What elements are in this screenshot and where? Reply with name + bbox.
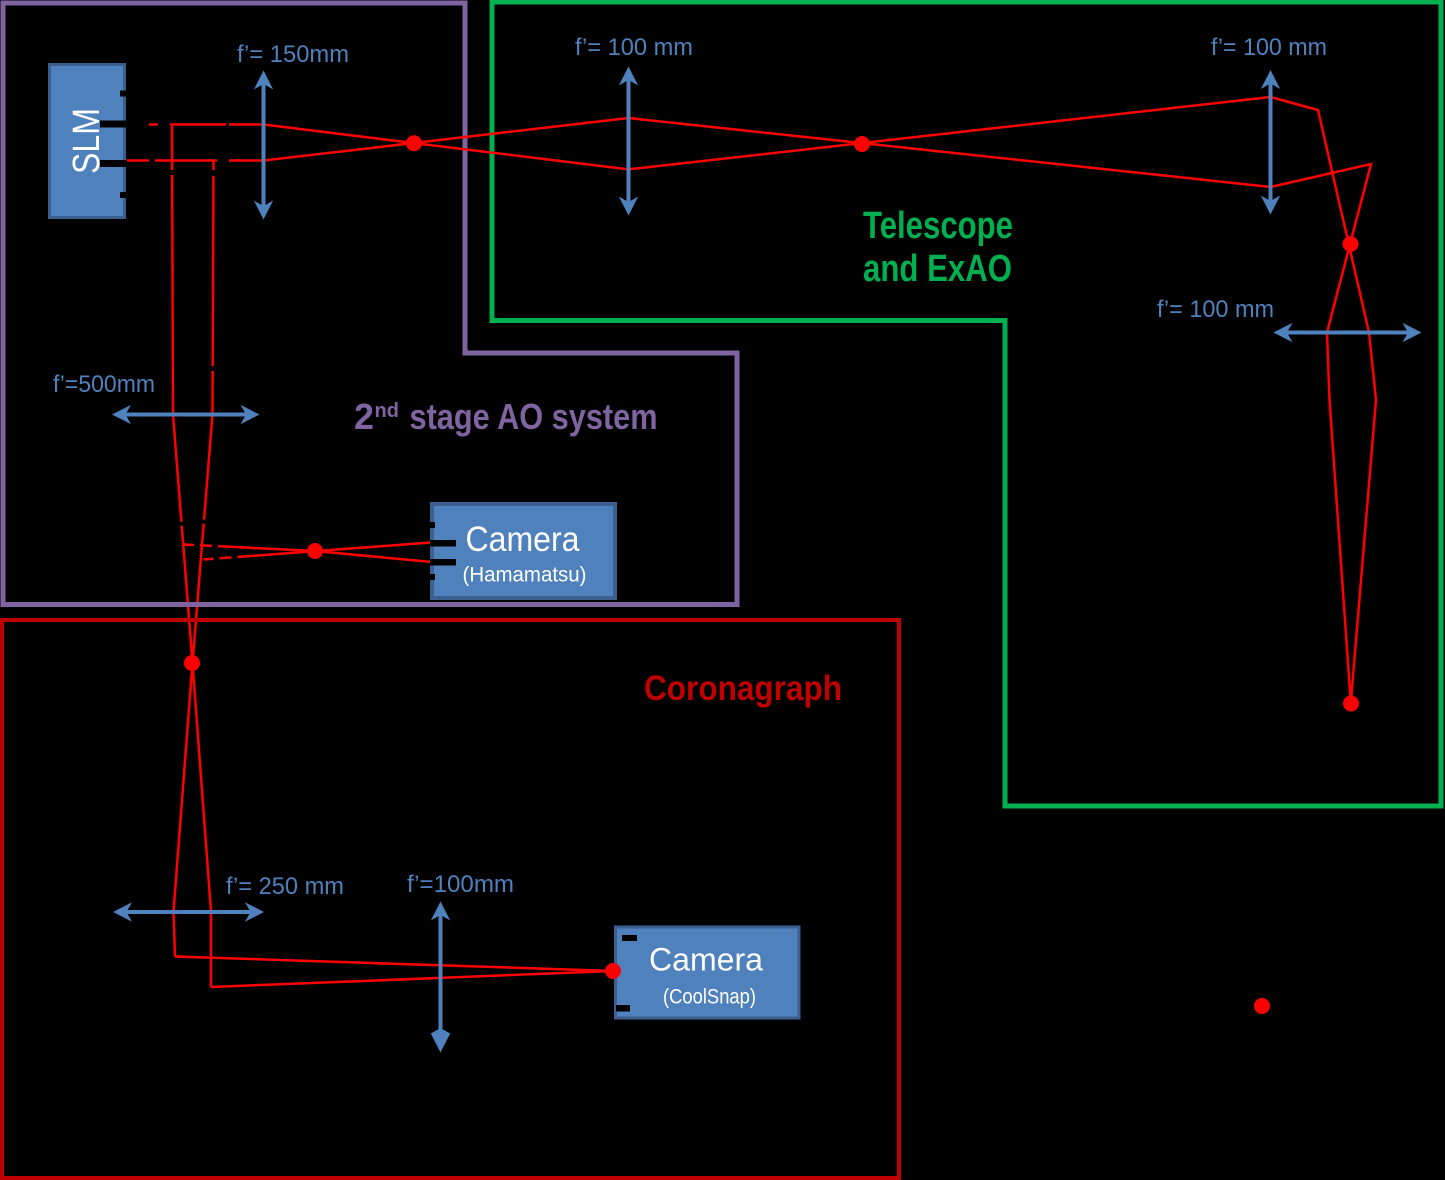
svg-text:Telescope: Telescope [863,205,1013,247]
svg-text:stage AO system: stage AO system [410,396,658,437]
lens L2 f'=100mm vertical double arrow [619,67,638,216]
wire: ray L3 top folded down through focus F3 to lens L4 [1271,97,1370,333]
wire: ray L2 bottom through focus F2 to lens L3 top [629,97,1271,169]
svg-text:f’=500mm: f’=500mm [53,371,155,398]
node: green box Telescope and ExAO [492,2,1441,806]
svg-text:2: 2 [354,396,374,437]
node: SLM box [50,65,128,218]
node: lone focus dot bottom right [1254,998,1270,1014]
wire: vertical ray V2 from lower SLM ray through lens L5 and focus F5 down to fold [174,161,214,957]
svg-text:(CoolSnap): (CoolSnap) [663,986,756,1009]
node: focus dot Hamamatsu [307,543,323,559]
wire: dashed ray to Hamamatsu camera (upper left) [184,545,437,563]
svg-text:Coronagraph: Coronagraph [644,669,842,708]
svg-text:and ExAO: and ExAO [863,248,1012,290]
svg-text:f’= 100 mm: f’= 100 mm [1211,34,1327,61]
node: focus dot F1 [406,135,422,151]
wire: dashed ray to Hamamatsu camera (lower left) [204,542,438,560]
svg-text:Camera: Camera [649,942,763,978]
svg-text:SLM: SLM [66,108,108,174]
node: focus dot F4 [1343,696,1359,712]
lens L4 f'=100mm horizontal double arrow [1274,323,1422,342]
svg-text:f’= 100 mm: f’= 100 mm [575,34,693,61]
wire: dashed upper ray SLM to lens L1 [149,123,264,126]
wire: folded ray to CoolSnap camera (upper) [175,957,613,972]
svg-text:f’= 100 mm: f’= 100 mm [1157,296,1274,323]
node: Camera Hamamatsu box [430,504,615,598]
lens L6 f'=250mm horizontal double arrow [113,902,264,921]
node: focus dot F2 [854,136,870,152]
wire: folded ray to CoolSnap camera (lower) [211,971,613,987]
wire: ray L3 bottom folded down through focus F3 to lens L4 [1271,164,1372,333]
svg-text:f’= 150mm: f’= 150mm [237,41,349,68]
wire: ray L1 bottom through focus F1 to lens L2 top [264,118,629,161]
node: focus dot F3 [1343,236,1359,252]
svg-text:f’= 250 mm: f’= 250 mm [226,873,344,900]
svg-text:f’=100mm: f’=100mm [407,871,514,898]
lens L1 f'=150mm vertical double arrow [254,71,273,220]
lens L5 f'=500mm horizontal double arrow [112,405,260,424]
wire: ray L4 left side converging to focus F4 [1327,333,1351,704]
node: focus dot F5 [184,655,200,671]
svg-text:(Hamamatsu): (Hamamatsu) [463,564,587,587]
wire: dashed lower ray SLM to lens L1 [125,159,264,162]
wire: ray L2 top through focus F2 to lens L3 bottom [629,118,1271,187]
node: focus dot CoolSnap [605,963,621,979]
lens L3 f'=100mm vertical double arrow [1261,70,1280,215]
node: purple box 2nd stage AO system [3,3,737,605]
wire: ray L4 right side converging to focus F4 [1351,333,1376,704]
wire: ray L1 top through focus F1 to lens L2 bottom [264,125,629,170]
node: red box Coronagraph [2,620,899,1178]
node: Camera CoolSnap box [616,927,800,1018]
lens L7 f'=100mm vertical double arrow [431,902,450,1053]
svg-text:Camera: Camera [466,520,580,559]
wire: vertical ray V1 from upper SLM ray through lens L5 and focus F5 down to fold [172,126,211,987]
svg-text:nd: nd [375,400,399,422]
